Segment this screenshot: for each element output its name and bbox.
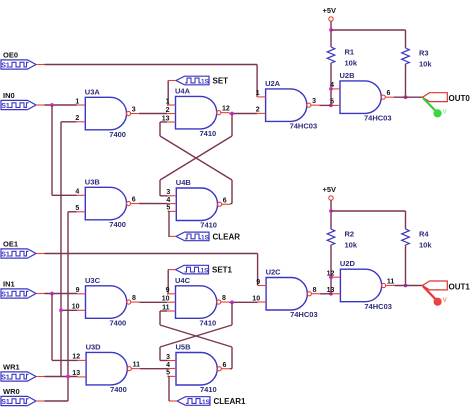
svg-text:2: 2	[166, 107, 170, 114]
wire rail1	[331, 30, 406, 48]
svg-text:V: V	[443, 110, 447, 116]
svg-text:13: 13	[327, 287, 335, 294]
wire SET1 to U4C.9	[167, 270, 168, 294]
svg-text:CLEAR1: CLEAR1	[214, 397, 247, 406]
stimulus IN0	[1, 91, 45, 110]
gate U3C	[72, 276, 140, 328]
svg-text:U2B: U2B	[340, 71, 356, 80]
svg-text:13: 13	[162, 115, 170, 122]
svg-text:IN0: IN0	[3, 91, 15, 100]
svg-text:12: 12	[222, 106, 230, 113]
wire U3C.8 to U4C.10	[139, 301, 167, 303]
svg-text:IN1: IN1	[3, 280, 15, 289]
svg-text:9: 9	[166, 287, 170, 294]
svg-text:S1: S1	[1, 63, 10, 70]
gate U4A	[162, 86, 230, 138]
junction WR0 cross node	[66, 375, 70, 379]
svg-text:11: 11	[387, 278, 395, 285]
wire WR1 vert to U3A.2	[61, 121, 77, 123]
wire IN0 to U3A.1	[45, 104, 77, 106]
wire cross to U4B.3	[160, 180, 168, 196]
svg-text:2: 2	[75, 115, 79, 122]
svg-text:7410: 7410	[200, 129, 217, 138]
svg-text:S1: S1	[1, 399, 10, 406]
gate U2C	[252, 268, 320, 320]
gate U2D	[327, 259, 395, 311]
svg-text:U4A: U4A	[175, 86, 191, 95]
svg-text:10: 10	[252, 295, 260, 302]
svg-text:U2D: U2D	[340, 259, 356, 268]
gate U2A	[256, 79, 320, 131]
resistor R4 10k	[402, 229, 433, 250]
svg-text:6: 6	[223, 197, 227, 204]
svg-text:6: 6	[223, 362, 227, 369]
gate U3D	[72, 342, 140, 394]
svg-text:10: 10	[162, 296, 170, 303]
svg-text:7400: 7400	[109, 220, 126, 229]
svg-text:1: 1	[75, 98, 79, 105]
wire WR0 up	[45, 400, 69, 402]
junction WR1-U3C node	[59, 308, 63, 312]
svg-text:V: V	[443, 298, 447, 304]
wire cross diag 1	[160, 136, 232, 180]
svg-text:5: 5	[166, 205, 170, 212]
wire cross Q0 down	[231, 114, 233, 137]
svg-text:CLEAR: CLEAR	[213, 232, 241, 241]
svg-text:10k: 10k	[345, 59, 358, 68]
wire U4A.12 out to U2A.2	[229, 113, 257, 115]
wire +5V2 to R2	[330, 200, 332, 229]
junction OUT1 node	[404, 284, 408, 288]
junction U2D.13 node	[329, 292, 333, 296]
wire R1 to U2B	[330, 63, 332, 105]
svg-text:R1: R1	[345, 48, 355, 57]
wire rail2	[331, 211, 406, 229]
svg-text:U3C: U3C	[85, 276, 101, 285]
svg-text:8: 8	[313, 287, 317, 294]
svg-text:7410: 7410	[200, 221, 217, 230]
svg-text:OE1: OE1	[3, 240, 18, 249]
gate U2B	[330, 71, 394, 123]
stimulus SET	[169, 76, 229, 85]
svg-text:4: 4	[166, 197, 170, 204]
wire U4A.13 feed	[160, 121, 167, 123]
wire cross diag 2	[160, 136, 232, 180]
wire cross left up B	[159, 311, 161, 325]
wire cross left up	[159, 122, 161, 136]
svg-text:11: 11	[162, 304, 170, 311]
wire U5B.6 to cross	[230, 347, 232, 369]
stimulus WR1	[1, 363, 45, 382]
svg-text:4: 4	[166, 362, 170, 369]
junction IN0 node	[50, 103, 54, 107]
svg-text:U3A: U3A	[85, 87, 101, 96]
wire U4C.11 feed	[160, 310, 167, 312]
output tag OUT1	[423, 281, 471, 292]
svg-text:SET: SET	[213, 77, 229, 86]
wire WR1 to U3C.10	[61, 309, 77, 311]
svg-text:13: 13	[72, 370, 80, 377]
svg-text:SET1: SET1	[212, 266, 233, 275]
wire U2B.6 to OUT0	[394, 96, 423, 98]
svg-text:12: 12	[72, 354, 80, 361]
wire U2C.8 to U2D.13	[320, 293, 332, 295]
svg-text:6: 6	[132, 197, 136, 204]
svg-text:7410: 7410	[200, 319, 217, 328]
svg-text:S1: S1	[1, 292, 10, 299]
wire stub R1-U2B4	[330, 88, 333, 90]
wire IN1 down to U3D.12	[52, 294, 78, 361]
wire U3B.6 to U4B.4	[139, 203, 168, 205]
svg-text:U5B: U5B	[176, 343, 192, 352]
svg-text:9: 9	[256, 279, 260, 286]
wire +5V to R1	[330, 21, 332, 47]
junction OUT0 node	[404, 95, 408, 99]
svg-text:3: 3	[166, 189, 170, 196]
gate U3B	[75, 177, 139, 229]
svg-text:WR0: WR0	[3, 387, 20, 396]
svg-text:1: 1	[166, 98, 170, 105]
wire U2A.3 to U2B.5	[319, 104, 331, 106]
svg-text:7410: 7410	[200, 385, 217, 394]
wire WR0 vert to U3B.5	[68, 211, 77, 213]
wire R4 to OUT1	[405, 245, 407, 286]
wire U4C.8 out to U2C.10	[229, 301, 257, 303]
svg-text:4: 4	[75, 189, 79, 196]
svg-text:8: 8	[132, 295, 136, 302]
resistor R2 10k	[327, 229, 358, 250]
svg-text:1: 1	[256, 90, 260, 97]
svg-text:OUT0: OUT0	[449, 94, 471, 103]
wire R3 to OUT0	[405, 64, 407, 97]
wire vert x61	[60, 122, 62, 377]
gate U4B	[166, 178, 230, 230]
resistor R3 10k	[402, 48, 433, 69]
svg-text:R2: R2	[345, 230, 355, 239]
svg-text:10k: 10k	[419, 241, 432, 250]
svg-text:9: 9	[76, 287, 80, 294]
svg-text:U3B: U3B	[85, 177, 101, 186]
svg-text:74HC03: 74HC03	[364, 114, 392, 123]
gate U3A	[75, 87, 139, 139]
stimulus IN1	[1, 280, 45, 299]
svg-text:OE0: OE0	[3, 51, 18, 60]
probe V green OUT0	[423, 98, 447, 118]
svg-text:5: 5	[166, 370, 170, 377]
junction Q0 node	[230, 112, 234, 116]
svg-text:74HC03: 74HC03	[364, 302, 392, 311]
svg-text:U4B: U4B	[176, 178, 192, 187]
svg-text:2: 2	[256, 107, 260, 114]
gate U4C	[162, 276, 230, 328]
svg-text:6: 6	[387, 90, 391, 97]
gate U5B	[166, 343, 230, 395]
stimulus SET1	[168, 265, 233, 274]
svg-text:8: 8	[222, 295, 226, 302]
wire U3A.3 to U4A.2	[139, 113, 167, 115]
svg-text:1S: 1S	[201, 79, 210, 86]
wire U4B.6 to cross	[230, 180, 232, 204]
svg-text:74HC03: 74HC03	[290, 122, 318, 131]
power +5V P2	[323, 185, 337, 200]
svg-text:R4: R4	[419, 230, 429, 239]
svg-text:WR1: WR1	[3, 363, 20, 372]
svg-text:4: 4	[330, 82, 334, 89]
wire CLEAR to U4B.5	[168, 211, 169, 236]
wire R2 to U2D	[330, 245, 332, 294]
wire cross to U5B.3	[160, 347, 168, 361]
wire OE0 to U2A.1	[45, 65, 258, 97]
stimulus CLEAR	[169, 232, 241, 241]
wire cross diag 3	[160, 325, 232, 347]
svg-text:7400: 7400	[109, 130, 126, 139]
svg-text:S1: S1	[1, 375, 10, 382]
wire U2D.11 to OUT1	[394, 285, 422, 287]
svg-text:5: 5	[75, 205, 79, 212]
svg-text:7400: 7400	[110, 319, 127, 328]
wire WR1 to U3D.13	[45, 376, 78, 378]
power +5V P1	[323, 6, 337, 21]
svg-text:3: 3	[132, 107, 136, 114]
svg-text:10k: 10k	[345, 241, 358, 250]
svg-text:OUT1: OUT1	[449, 283, 471, 292]
stimulus OE1	[1, 240, 45, 259]
wire vert x68	[67, 212, 69, 401]
svg-text:10k: 10k	[419, 60, 432, 69]
resistor R1 10k	[327, 47, 358, 68]
svg-text:74HC03: 74HC03	[290, 310, 318, 319]
junction IN1 node	[50, 292, 54, 296]
svg-text:5: 5	[330, 99, 334, 106]
svg-text:S1: S1	[1, 103, 10, 110]
wire CLEAR1 to U5B.5	[168, 376, 170, 401]
probe V red OUT1	[423, 286, 447, 306]
output tag OUT0	[423, 93, 471, 104]
svg-text:U3D: U3D	[86, 342, 102, 351]
svg-text:11: 11	[133, 362, 141, 369]
junction U2B.4 node	[329, 87, 333, 91]
svg-text:12: 12	[327, 271, 335, 278]
wire IN1 to U3C.9	[45, 293, 78, 295]
junction rail2 node	[329, 209, 333, 213]
wire cross diag 4	[160, 325, 232, 347]
svg-text:1S: 1S	[202, 399, 211, 406]
svg-text:U2A: U2A	[265, 79, 281, 88]
svg-text:3: 3	[312, 98, 316, 105]
svg-text:S1: S1	[1, 252, 10, 259]
wire cross Q1 down	[231, 302, 233, 325]
junction rail1 node	[329, 28, 333, 32]
stimulus CLEAR1	[170, 397, 247, 406]
wire stub R2-U2D12	[330, 276, 333, 278]
svg-text:1S: 1S	[201, 268, 210, 275]
svg-text:U4C: U4C	[175, 276, 191, 285]
wire U3D.11 to U5B.4	[140, 368, 168, 370]
stimulus OE0	[1, 51, 45, 70]
svg-text:R3: R3	[419, 49, 429, 58]
svg-text:7400: 7400	[110, 385, 127, 394]
svg-text:+5V: +5V	[323, 185, 337, 194]
junction U2D.12 node	[329, 275, 333, 279]
junction U2B.5 node	[329, 104, 333, 108]
svg-text:1S: 1S	[201, 234, 210, 241]
wire IN0 down to U3B.4	[52, 105, 77, 195]
junction Q1 node	[230, 300, 234, 304]
svg-text:3: 3	[166, 354, 170, 361]
svg-text:U2C: U2C	[266, 268, 282, 277]
svg-text:+5V: +5V	[323, 6, 337, 15]
wire OE1 to U2C.9	[45, 254, 258, 286]
wire SET to U4A.1	[167, 81, 168, 106]
stimulus WR0	[1, 387, 45, 406]
svg-text:10: 10	[72, 304, 80, 311]
